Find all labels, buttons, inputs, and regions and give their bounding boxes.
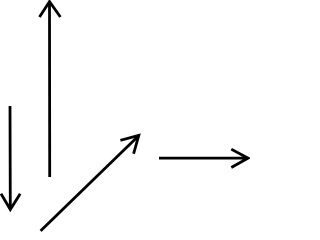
right arrow head xyxy=(231,149,248,167)
diagonal arrow shaft xyxy=(41,136,139,231)
diagonal arrow head xyxy=(120,135,138,153)
right arrow shaft xyxy=(159,157,247,160)
up arrow head xyxy=(40,2,61,17)
down arrow head xyxy=(1,194,20,210)
up arrow shaft xyxy=(48,3,51,177)
down arrow shaft xyxy=(9,106,12,208)
